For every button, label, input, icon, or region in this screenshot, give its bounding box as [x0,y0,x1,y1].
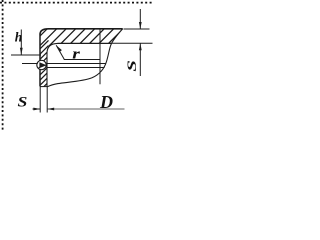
sheet lower line [46,67,104,69]
h arrow down [20,48,23,55]
arrow up to bottom edge [139,43,142,50]
wire hatch [38,66,40,68]
bottom band extension line (right) [111,42,152,44]
svg-text:S: S [17,93,27,110]
S right dim line lower [139,43,141,76]
D dim line [47,108,124,110]
wall inner edge [46,53,48,87]
thin vertical line at x=100 [99,29,101,85]
arrow right [33,108,40,111]
sheet upper line [46,63,105,65]
r leader arrow [56,45,64,59]
part outline (L-section: top band + left wall) [40,29,123,35]
circle top extension line [22,63,38,65]
dotted page border top [0,2,153,4]
svg-text:h: h [15,30,23,45]
svg-text:S: S [125,60,139,72]
arrow left [47,108,54,111]
cavity profile curve [47,29,123,87]
dotted page border left [2,0,4,130]
arrow down to top edge [139,22,142,29]
inner fillet r [47,43,58,53]
top surface extension line (right) [124,28,150,30]
hatching of part section (top band) [30,26,126,46]
h extension line [11,54,41,56]
band bottom inner edge [58,42,112,44]
wedge inside wire [39,62,46,68]
wall bottom end [40,86,47,88]
svg-text:r: r [72,46,80,62]
bottom ext line outer [39,87,41,113]
svg-text:D: D [99,92,113,112]
wall outer edge [39,35,41,87]
hatching of part section (left wall strip) [39,40,49,91]
r leader shelf [64,59,100,61]
bottom ext line inner [46,87,48,113]
S right dim line upper [139,9,141,29]
S bottom dim line left [33,108,41,110]
wire circle [37,60,46,69]
h dimension line [20,30,22,55]
